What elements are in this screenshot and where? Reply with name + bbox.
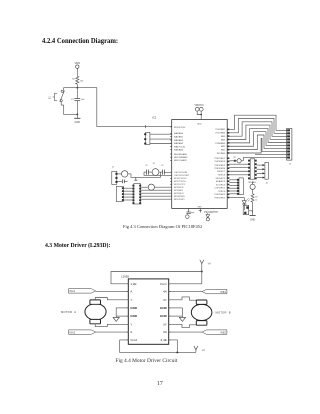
capacitor C3 [71,98,85,101]
net flag INB2 [202,330,227,334]
wire VCC2 loop to 3,4EN [120,340,196,353]
svg-text:C1: C1 [145,165,147,167]
node: +V rail junction [201,271,203,273]
net flag INA2 [69,330,96,334]
svg-text:S1: S1 [48,96,51,100]
wire J5 pin2 to RA2 [150,138,172,140]
svg-text:RD1/PSP1: RD1/PSP1 [174,199,185,201]
heading 4.2.4 [42,38,118,45]
svg-text:SCL/RC3: SCL/RC3 [216,184,226,186]
wire node to capacitor [76,88,78,99]
node: 3,4EN junction [176,351,178,353]
wire 3A to INB2 [169,331,202,333]
svg-text:J2: J2 [289,164,292,166]
wire 4Y to MOTOR B top [169,297,197,300]
svg-text:Vcc1: Vcc1 [160,282,167,286]
wire INA1 to 1A [96,291,129,293]
bus wires RB7..RB0 to connector J2 [229,115,287,153]
svg-text:X1: X1 [153,163,155,165]
svg-text:PSP2/RD2: PSP2/RD2 [215,197,226,199]
connector J1 (3 pin) [112,167,118,185]
svg-text:VSS: VSS [197,206,202,208]
svg-text:Y: Y [130,298,132,302]
svg-text:RC3/SCK: RC3/SCK [174,187,184,189]
ground (left, U2 pins 4,5) [113,308,128,322]
svg-text:RC5/SDO: RC5/SDO [174,193,184,195]
node: reset net junction [76,87,78,89]
motor M2 MOTOR B [191,300,230,325]
resistor R1 [251,194,258,202]
svg-text:GND: GND [130,306,138,310]
svg-text:+V: +V [202,348,206,352]
svg-text:RX/RC7: RX/RC7 [217,171,226,173]
wire node to switch [64,88,78,91]
svg-text:RC1/T1OSI: RC1/T1OSI [174,181,186,183]
IC2 left pin labels and stubs [170,127,190,201]
wires J7 to IC2 RC/RD pins [141,190,172,199]
svg-text:+V: +V [208,262,212,266]
wire +V to VCC1 [169,272,202,284]
svg-text:1,2E: 1,2E [130,282,136,286]
node: switch/cap junction [76,114,78,116]
svg-text:INA2: INA2 [69,331,76,334]
node tick on MCLR wire [145,125,147,128]
ground (right cluster) [250,202,256,221]
svg-text:CCP2/RC1: CCP2/RC1 [214,188,226,190]
motor M1 MOTOR A [61,300,106,324]
capacitor C4 (by J1) [118,180,128,184]
wire J5 pin1 to RA0 [150,133,172,135]
svg-text:J1: J1 [112,167,115,169]
wire J5 pin3 to RA3 [150,143,172,145]
capacitor C2 (crystal load) [161,165,164,175]
wire 4A to INB1 [169,291,202,293]
svg-text:C2: C2 [161,165,163,167]
svg-text:RC0/T1OSO: RC0/T1OSO [174,178,187,180]
svg-text:RD0/PSP0: RD0/PSP0 [174,196,185,198]
svg-text:INT/RB0: INT/RB0 [217,153,226,155]
wires IC2 to RN1 [229,164,248,175]
net flag INB1 [202,289,227,293]
svg-text:R1: R1 [255,197,257,199]
IC2 right pin labels and stubs [214,129,229,200]
net flag INA1 [69,289,96,293]
connector J4 (4 pin) [257,162,269,184]
power symbol VDD/VCC above IC2 [194,105,204,111]
svg-text:SDO/RC5: SDO/RC5 [215,178,226,180]
svg-text:MOTOR B: MOTOR B [216,310,231,314]
svg-text:INA1: INA1 [69,290,76,293]
svg-text:PGM/RB3: PGM/RB3 [215,143,226,145]
wire VSS center stub [199,208,202,212]
wires IC2 to J3 [229,180,237,194]
wire crystal branch to OSC2 [144,172,172,175]
svg-text:RA2/AN2: RA2/AN2 [174,139,184,142]
svg-text:Y: Y [130,322,132,326]
switch S1 (push button) [48,90,64,102]
heading 4.3 [45,242,110,249]
svg-text:10k: 10k [80,81,84,83]
wire: VDD stub to resistor [76,68,78,76]
svg-text:L293D: L293D [121,275,129,279]
svg-text:RE2/CS/AN7: RE2/CS/AN7 [174,159,188,162]
ground (right, U2 pins 12,13) [169,308,186,322]
page number [157,381,163,387]
wire MOTOR A bottom to 2Y [95,324,128,327]
wires to J2 lower pins [243,156,287,158]
connector J2 (10 pin) [287,129,292,166]
power +V (top) [200,260,211,272]
svg-text:C3: C3 [71,99,75,101]
svg-text:RA3/AN3: RA3/AN3 [174,142,184,145]
push button SW1 (right) [250,181,255,193]
svg-text:PIC16F877P: PIC16F877P [204,211,218,214]
svg-text:PGD/RB7: PGD/RB7 [216,129,226,131]
svg-text:J4: J4 [266,182,269,184]
svg-text:1k: 1k [255,200,257,202]
wires J6 to J7 [124,188,132,200]
caption Fig 4.3 [123,224,202,229]
connector J7 (7 pin header) [132,184,141,205]
ground tick (oscillator) [134,177,137,180]
LED D1 [229,198,252,215]
svg-text:RC2/CCP1: RC2/CCP1 [174,184,186,186]
U2 pin labels [126,282,171,342]
op-amp U2 L293D driver body [121,275,168,345]
capacitor C1 (crystal load) [145,165,148,175]
resistor R2 10k [72,76,84,84]
svg-text:3Y: 3Y [163,322,167,326]
svg-text:VDD: VDD [75,61,81,65]
svg-text:GND: GND [130,314,138,318]
wire VDD to chip [197,111,201,114]
wire +V rail to 1,2EN [111,272,202,284]
ground (reset circuit) [74,114,80,123]
op IC2 PIC16F877 microcontroller body [152,116,227,209]
connector J6 (5 pin header) [116,186,124,201]
capacitor C5 / ground mark (below IC2 left) [186,212,195,218]
wire J1/oscillator to OSC1 [131,172,161,177]
wire C2 to chip OSC1 [164,171,171,173]
wire MOTOR A top to 1Y [95,298,128,300]
power +V (bottom) [194,346,205,353]
svg-text:RA0/AN0: RA0/AN0 [174,132,184,135]
svg-text:4Y: 4Y [163,298,167,302]
svg-text:OSC1/CLKIN: OSC1/CLKIN [174,172,187,174]
svg-text:GND: GND [160,306,168,310]
svg-text:GND: GND [250,219,256,222]
svg-text:1uF: 1uF [81,99,85,101]
wire switch to lower node [61,102,77,115]
svg-text:IC2: IC2 [152,116,157,120]
diode D2 (below IC2) [206,213,210,221]
svg-text:PSP6/RD6: PSP6/RD6 [215,161,226,163]
resistor pack RN1 [248,159,257,184]
svg-text:X2: X2 [233,157,235,159]
svg-text:GND: GND [75,121,81,124]
svg-text:SDA/RC4: SDA/RC4 [216,180,226,183]
caption Fig 4.4 [116,358,178,364]
node: VDD junction [200,114,202,116]
svg-text:GND: GND [160,314,168,318]
svg-text:RA1/AN1: RA1/AN1 [174,136,184,139]
svg-text:MCLR/THV: MCLR/THV [174,127,186,129]
wire capacitor to lower node [76,101,78,115]
wire INA2 to 2A [96,331,129,333]
svg-text:INB2: INB2 [220,331,227,334]
svg-text:RC4/SDI: RC4/SDI [174,190,183,192]
svg-text:T1/RC0: T1/RC0 [218,191,226,193]
crystal X2 (right of IC2) [229,157,243,163]
svg-text:PSP4/RD4: PSP4/RD4 [215,168,226,170]
power symbol VDD (reset circuit) [75,61,81,69]
svg-text:OSC2/CLKOUT: OSC2/CLKOUT [174,175,190,177]
svg-text:MOTOR A: MOTOR A [61,310,76,314]
svg-text:R2: R2 [72,78,76,80]
svg-text:INB1: INB1 [220,291,227,294]
wire resistor to node [76,84,78,88]
svg-text:3,4E: 3,4E [160,338,166,342]
svg-text:RA4/T0CKI: RA4/T0CKI [174,145,185,148]
crystal X3 (by J1) [118,171,132,177]
wire reset node to MCLR pin [77,88,171,127]
crystal X1 [152,163,159,175]
svg-text:VDD: VDD [197,123,202,125]
wire 3Y to MOTOR B bottom [169,324,197,327]
svg-text:PSP3/RD3: PSP3/RD3 [215,194,226,196]
svg-text:VCC: VCC [199,105,204,107]
wire VSS to ground caps [188,208,190,212]
connector J5 (3 pin, left of IC2) [144,132,150,144]
svg-text:RE0/RD/AN5: RE0/RD/AN5 [174,153,188,156]
svg-text:RA5/AN4: RA5/AN4 [174,149,184,152]
buzzer LS1 (circle by J7) [141,184,172,190]
svg-text:PSP5/RD5: PSP5/RD5 [215,165,226,167]
connector J3 (6 pin header, lower right) [237,178,243,195]
svg-text:Vcc2: Vcc2 [130,338,137,342]
wire crystal to OSC1 [148,171,152,173]
svg-text:PSP7/RD7: PSP7/RD7 [215,158,226,160]
svg-text:TX/RC6: TX/RC6 [217,175,226,177]
svg-text:PGC/RB6: PGC/RB6 [216,133,226,135]
svg-text:RE1/WR/AN6: RE1/WR/AN6 [174,156,188,159]
